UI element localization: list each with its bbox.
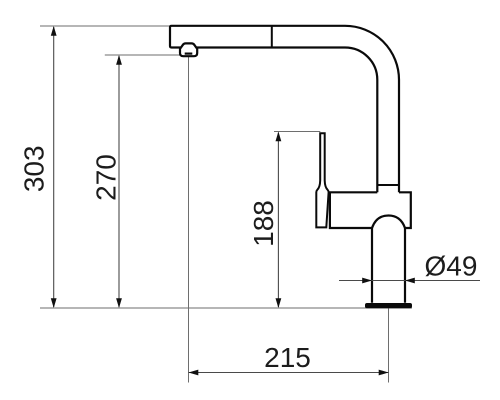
extension line top (303 at spout top)	[40, 25, 170, 27]
extension line aerator bottom (270)	[105, 54, 181, 56]
dimension 188 line	[277, 133, 279, 308]
svg-text:215: 215	[264, 342, 311, 373]
extension line lever top (188)	[274, 131, 320, 133]
lever handle	[316, 133, 328, 227]
riser joint line	[377, 184, 399, 186]
base column left edge	[371, 228, 373, 303]
dimension 215 line	[189, 372, 389, 374]
svg-text:303: 303	[19, 145, 50, 192]
dimension 270 line	[118, 56, 120, 307]
cartridge body block with dome	[330, 192, 411, 228]
aerator slot	[185, 53, 193, 55]
aerator	[180, 43, 197, 56]
spray head joint line	[271, 26, 273, 48]
baseline mounting surface	[40, 307, 412, 309]
svg-text:Ø49: Ø49	[425, 251, 478, 282]
dimension diameter 49 leader	[339, 280, 480, 282]
faucet spout and neck tube	[170, 26, 399, 193]
svg-text:188: 188	[248, 200, 279, 247]
base column right edge	[404, 228, 406, 303]
svg-text:270: 270	[90, 154, 121, 201]
extension line right vertical (215 at base center)	[388, 309, 390, 383]
extension line left vertical (215 at aerator)	[188, 57, 190, 383]
base flange	[365, 303, 412, 308]
dimension 303 line	[53, 27, 55, 307]
